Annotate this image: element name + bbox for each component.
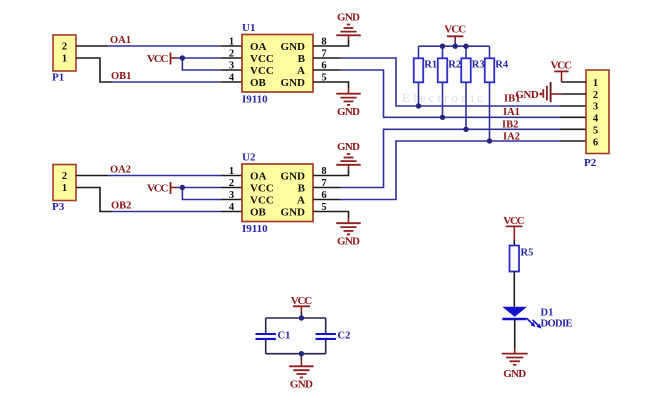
svg-text:GND: GND <box>337 235 360 247</box>
svg-text:2: 2 <box>229 49 234 60</box>
svg-text:OA: OA <box>250 41 267 53</box>
svg-text:5: 5 <box>593 126 598 137</box>
svg-text:U1: U1 <box>242 22 255 34</box>
svg-text:VCC: VCC <box>147 183 169 195</box>
svg-text:GND: GND <box>281 170 306 182</box>
svg-text:1: 1 <box>62 183 67 194</box>
svg-text:VCC: VCC <box>250 194 274 206</box>
svg-text:1: 1 <box>593 78 598 89</box>
svg-text:OA: OA <box>250 170 267 182</box>
svg-text:2: 2 <box>62 42 67 53</box>
svg-text:I9110: I9110 <box>242 223 268 235</box>
svg-text:R1: R1 <box>424 59 437 70</box>
svg-text:2: 2 <box>62 171 67 182</box>
svg-text:VCC: VCC <box>147 53 169 65</box>
svg-text:GND: GND <box>337 106 360 118</box>
svg-text:I9110: I9110 <box>242 94 268 106</box>
svg-text:B: B <box>298 53 306 65</box>
svg-text:GND: GND <box>281 41 306 53</box>
svg-text:D1: D1 <box>541 307 554 318</box>
svg-text:OB2: OB2 <box>111 201 131 212</box>
svg-text:IA2: IA2 <box>503 131 520 142</box>
svg-text:1: 1 <box>62 54 67 65</box>
svg-text:GND: GND <box>515 89 539 101</box>
svg-text:VCC: VCC <box>250 53 274 65</box>
svg-text:4: 4 <box>229 202 235 213</box>
svg-text:GND: GND <box>503 368 526 380</box>
svg-text:GND: GND <box>337 141 360 153</box>
svg-text:VCC: VCC <box>503 215 525 227</box>
svg-text:GND: GND <box>281 206 306 218</box>
svg-text:2: 2 <box>593 90 598 101</box>
svg-text:R5: R5 <box>521 247 534 258</box>
svg-text:1: 1 <box>229 166 234 177</box>
svg-text:IA1: IA1 <box>503 107 520 118</box>
svg-text:VCC: VCC <box>551 59 573 71</box>
svg-text:DODIE: DODIE <box>541 319 573 330</box>
svg-text:OA2: OA2 <box>110 165 131 176</box>
svg-text:OA1: OA1 <box>110 35 131 46</box>
svg-text:1: 1 <box>229 37 234 48</box>
svg-text:U2: U2 <box>242 152 256 164</box>
svg-text:3: 3 <box>229 190 234 201</box>
svg-text:R3: R3 <box>472 59 485 70</box>
svg-text:GND: GND <box>290 378 313 390</box>
svg-text:P1: P1 <box>52 72 64 84</box>
svg-text:4: 4 <box>229 73 235 84</box>
svg-text:R2: R2 <box>448 59 461 70</box>
svg-text:P2: P2 <box>584 157 597 169</box>
svg-text:GND: GND <box>337 12 360 24</box>
svg-text:C2: C2 <box>338 330 351 341</box>
svg-text:P3: P3 <box>52 201 65 213</box>
svg-text:OB: OB <box>250 77 267 89</box>
svg-text:R4: R4 <box>495 59 509 70</box>
svg-text:C1: C1 <box>278 330 291 341</box>
svg-text:B: B <box>298 182 306 194</box>
svg-text:3: 3 <box>593 102 598 113</box>
svg-text:6: 6 <box>593 138 598 149</box>
svg-text:OB1: OB1 <box>111 71 131 82</box>
svg-text:IB2: IB2 <box>502 119 518 130</box>
svg-text:2: 2 <box>229 178 234 189</box>
svg-text:A: A <box>297 194 305 206</box>
svg-text:4: 4 <box>593 114 599 125</box>
svg-text:VCC: VCC <box>250 65 274 77</box>
svg-text:VCC: VCC <box>291 295 313 307</box>
svg-text:VCC: VCC <box>444 23 466 35</box>
svg-text:OB: OB <box>250 206 267 218</box>
svg-text:3: 3 <box>229 61 234 72</box>
svg-text:GND: GND <box>281 77 306 89</box>
svg-text:A: A <box>297 65 305 77</box>
svg-text:VCC: VCC <box>250 182 274 194</box>
